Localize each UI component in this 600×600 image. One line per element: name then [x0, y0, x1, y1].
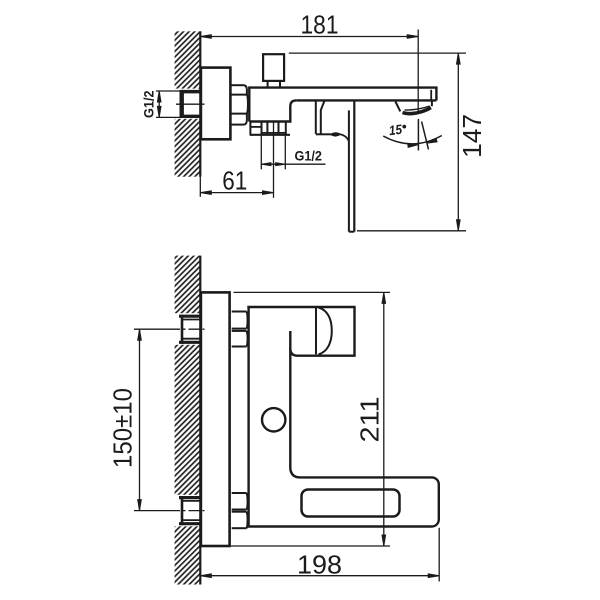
aerator nozzle under spout tip	[395, 102, 400, 112]
faucet body front view outer outline	[249, 306, 439, 527]
181 extension line through spout	[417, 30, 419, 114]
lever end lens	[331, 133, 341, 136]
wall surface line top view	[199, 31, 201, 176]
faucet body bar with spout (side view)	[249, 88, 436, 122]
wall hatching bottom view seg1	[175, 256, 201, 314]
dimension 150+-10	[139, 329, 141, 510]
hex nut side view between plate and body	[231, 85, 248, 124]
wall line thin extension for 61 dim	[199, 177, 201, 197]
svg-text:15: 15	[388, 122, 403, 139]
degree dot of 15 label	[402, 125, 406, 129]
dimension 198	[200, 575, 439, 577]
bar bottom edge	[296, 99, 436, 101]
spout inner end line	[430, 90, 432, 100]
upper inlet square through wall	[179, 315, 200, 318]
cartridge arc	[319, 308, 332, 355]
svg-text:G1/2: G1/2	[295, 149, 323, 164]
front plate side view inner line	[348, 110, 350, 231]
dimension G1/2 left	[156, 91, 181, 117]
dimension 211	[234, 291, 391, 293]
lever lines under bar	[315, 100, 317, 133]
escutcheon plate front view	[201, 292, 230, 546]
lower inlet square through wall	[179, 496, 200, 499]
lever bottom horizontal	[316, 133, 331, 135]
G1/2 inlet pipe through wall (thick frame)	[180, 90, 201, 118]
svg-text:198: 198	[297, 550, 342, 580]
handle knob (side view)	[263, 54, 284, 81]
body bottom-left fillet and bottom edge	[249, 100, 296, 121]
front plate side view outer line	[353, 101, 355, 232]
inlet centerline	[176, 103, 205, 105]
svg-text:181: 181	[301, 9, 339, 39]
svg-text:147: 147	[457, 114, 487, 158]
dimension 147	[289, 52, 466, 54]
escutcheon plate side view	[201, 68, 231, 140]
svg-text:G1/2: G1/2	[142, 90, 157, 118]
outlet flange and nut under body	[250, 122, 290, 135]
curve from lens to plate	[340, 134, 349, 141]
body top edge and handle outline	[247, 307, 354, 356]
cartridge vertical line	[315, 307, 317, 354]
wall hatching bottom view seg2	[175, 345, 201, 495]
screw hole circle	[262, 408, 285, 431]
wall hatching top view upper part	[175, 31, 201, 88]
wall hatching top view lower part	[175, 119, 201, 177]
lower inlet centerline / 150 extension	[134, 510, 169, 512]
dimension 181 line	[200, 36, 418, 38]
15 degree angle lines	[417, 119, 419, 151]
dimension G1/2 bottom	[261, 136, 285, 170]
upper hex nut front view	[232, 312, 248, 347]
svg-text:211: 211	[355, 397, 385, 443]
handle stem	[268, 81, 280, 88]
svg-text:150±10: 150±10	[107, 388, 137, 468]
dimension 61	[200, 192, 273, 194]
15 degree arc	[383, 136, 442, 144]
wall surface line bottom view	[199, 256, 201, 585]
outlet centerline vertical	[273, 122, 275, 198]
slot in foot	[302, 490, 400, 517]
front plate bottom cap	[349, 231, 354, 233]
lower hex nut front view	[232, 493, 248, 528]
wall hatching bottom view seg3	[175, 526, 201, 584]
svg-text:61: 61	[222, 165, 247, 195]
upper inlet centerline / 150 extension	[134, 328, 169, 330]
